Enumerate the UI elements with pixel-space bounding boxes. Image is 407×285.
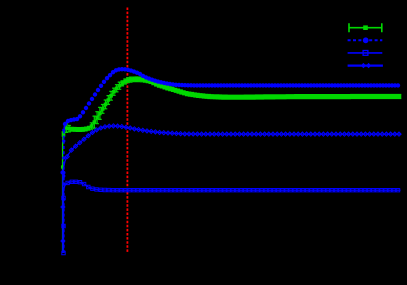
curve 1: green mean estimate with yerrorbars [61,77,401,253]
curve 4: blue line with open diamond markers [61,124,401,253]
curve 3: blue line with open square markers [62,180,401,255]
legend entry 1: green yerrorbars sample [349,23,382,32]
red dashed vertical reference line x=127 [126,8,128,254]
curve 2: blue dashed line with filled circle markers [62,67,400,253]
legend entry 2: blue dashed line with filled circle [348,37,383,43]
legend entry 3: blue line with open square [348,51,383,56]
legend entry 4: blue line with diamond markers [348,63,383,68]
